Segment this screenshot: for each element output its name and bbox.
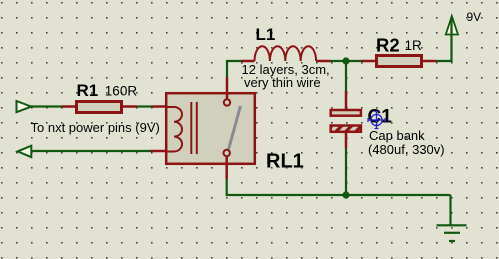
relay RL1 pin coil bottom <box>151 150 167 153</box>
inductor L1 pin right <box>316 60 330 63</box>
svg-text:L1: L1 <box>256 25 276 44</box>
resistor R2 pin right <box>422 60 436 63</box>
svg-text:RL1: RL1 <box>266 151 304 173</box>
resistor R1 pin left <box>62 105 76 108</box>
wire <box>137 105 153 107</box>
ground <box>437 195 467 241</box>
wire <box>345 61 347 91</box>
capacitor C1 pin top <box>345 91 348 109</box>
wire <box>227 179 451 195</box>
wire <box>31 105 62 107</box>
capacitor C1 plate bottom <box>331 126 361 132</box>
capacitor C1 plate top <box>331 110 361 116</box>
relay RL1 core bar 1 <box>190 102 192 154</box>
junction <box>342 191 349 198</box>
relay RL1 switch contact bottom <box>224 150 230 156</box>
relay RL1 pin coil top <box>153 105 167 108</box>
inductor L1 pin left <box>242 60 255 63</box>
svg-text:R1: R1 <box>77 81 99 100</box>
wire <box>227 61 242 77</box>
relay RL1 body <box>166 93 255 164</box>
wire <box>31 150 151 152</box>
relay RL1 pin switch top <box>226 77 229 99</box>
resistor R2 pin left <box>362 60 377 63</box>
relay RL1 switch contact top <box>224 99 230 105</box>
svg-text:R2: R2 <box>376 35 400 56</box>
power terminal 9V <box>446 16 458 35</box>
relay RL1 coil <box>166 107 182 152</box>
svg-text:To nxt power pins (9V): To nxt power pins (9V) <box>31 120 160 135</box>
svg-text:160R: 160R <box>105 83 138 98</box>
svg-text:very thin wire: very thin wire <box>244 75 321 90</box>
relay RL1 switch blade <box>229 106 241 150</box>
svg-text:(480uf, 330v): (480uf, 330v) <box>368 142 445 157</box>
wire <box>345 148 347 195</box>
svg-text:9V: 9V <box>467 10 482 24</box>
resistor R1 pin right <box>122 105 137 108</box>
capacitor C1 pin bottom <box>345 133 348 148</box>
inductor L1 <box>255 46 317 61</box>
relay RL1 core bar 2 <box>196 102 198 154</box>
relay RL1 pin switch bottom <box>225 156 228 179</box>
svg-text:Cap bank: Cap bank <box>369 128 425 143</box>
terminal output (left-pointing) <box>18 146 32 157</box>
junction <box>342 57 349 64</box>
origin marker <box>368 111 386 129</box>
wire <box>331 60 362 62</box>
svg-text:1R: 1R <box>405 38 423 53</box>
resistor R1 <box>77 102 122 113</box>
terminal input (right-pointing) <box>17 101 32 112</box>
resistor R2 <box>377 56 422 67</box>
wire <box>436 18 452 62</box>
